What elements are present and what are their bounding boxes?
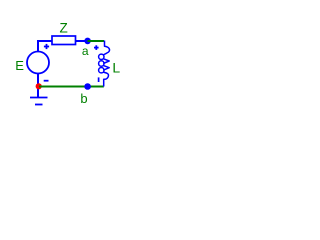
inductor L serpentine + leads [103, 41, 109, 87]
impedance box Z [52, 36, 76, 45]
inductor L coil loops [99, 54, 104, 73]
wire from source bottom to ground [37, 74, 39, 98]
junction node (red dot) [36, 83, 42, 89]
plus sign of source E [44, 44, 49, 49]
svg-text:Z: Z [60, 21, 68, 36]
svg-text:a: a [82, 44, 89, 58]
ground long bar [30, 97, 48, 99]
svg-text:b: b [80, 91, 87, 106]
node a dot [84, 38, 91, 45]
plus sign at node a (inductor polarity) [94, 45, 99, 50]
ground short bar [35, 104, 43, 106]
wire from Z box to node a [76, 40, 88, 42]
minus sign at inductor bottom (rotated, vertical bar) [98, 77, 100, 82]
svg-text:E: E [15, 58, 24, 73]
minus sign of source E [44, 80, 49, 82]
wire from source top to Z box (corner) [38, 41, 52, 52]
node b dot [84, 83, 91, 90]
svg-text:L: L [112, 59, 120, 75]
voltage source E circle [27, 52, 49, 74]
wire (green) from node a to inductor [88, 40, 105, 42]
bottom wire (green) from junction to inductor [39, 86, 104, 88]
